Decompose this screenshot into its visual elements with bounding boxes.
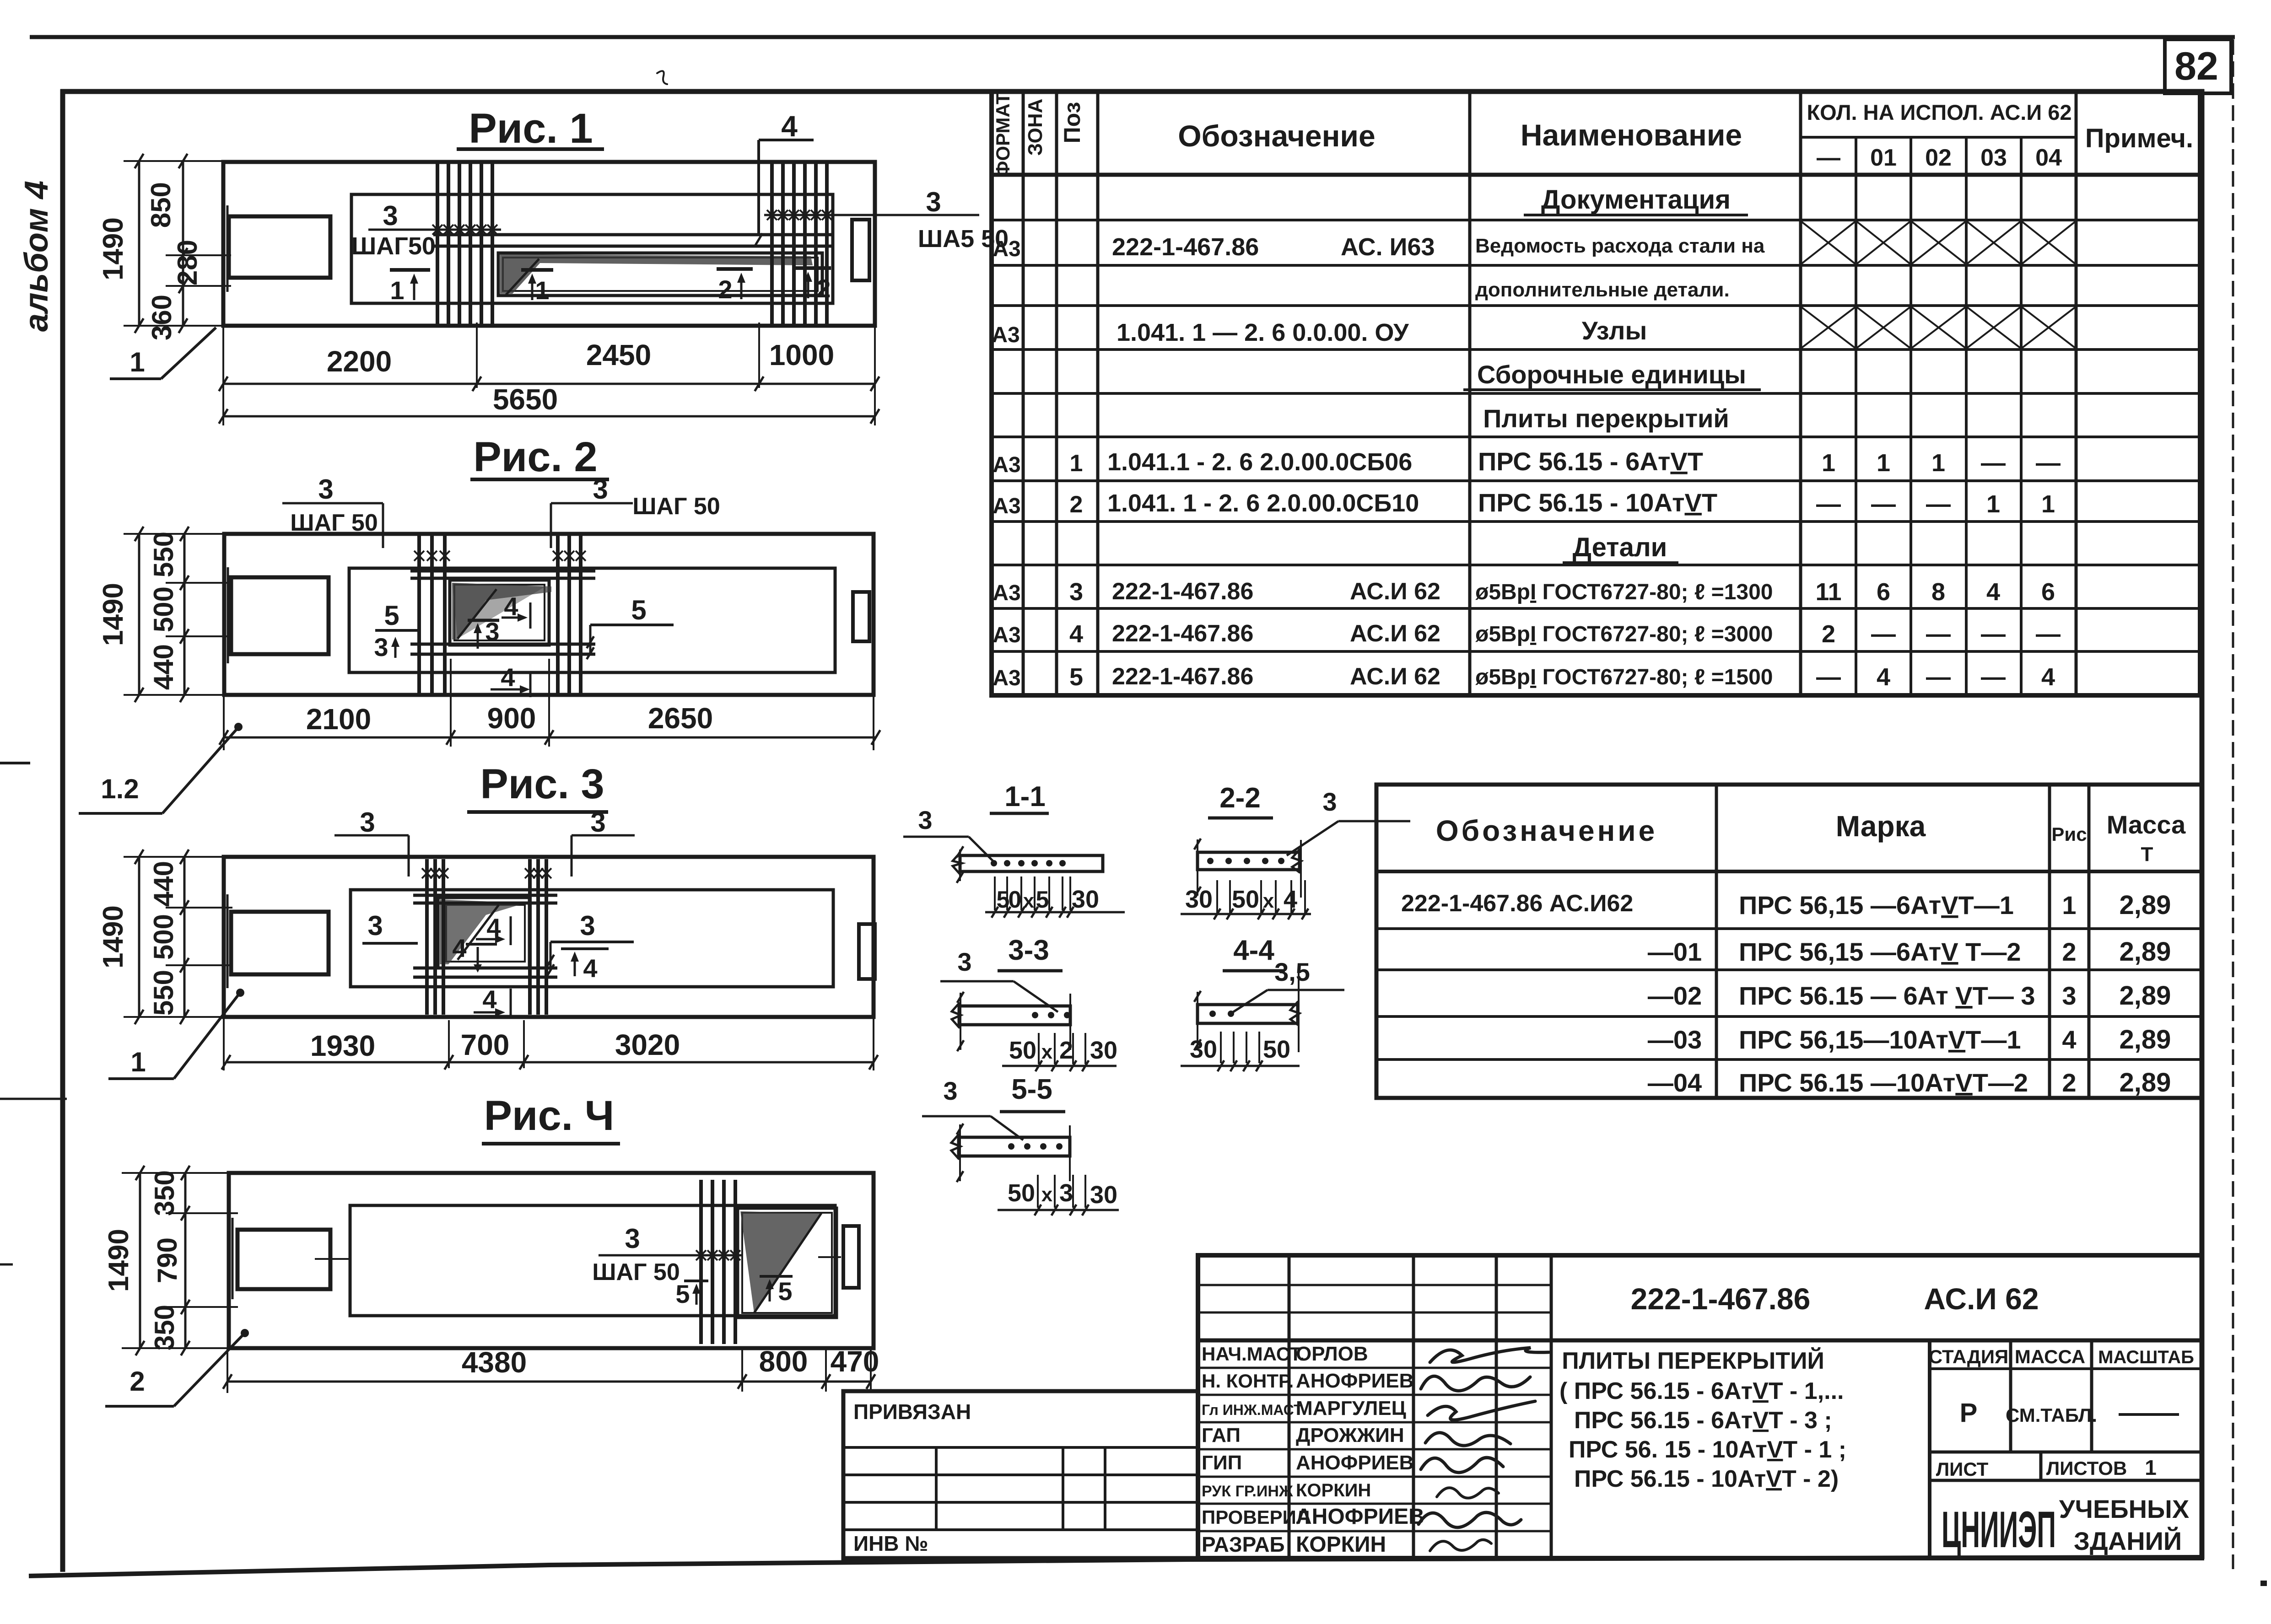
svg-text:ПРС 56.15 - 10АтVТ: ПРС 56.15 - 10АтVТ — [1478, 488, 1717, 517]
svg-text:ФОРМАТ: ФОРМАТ — [992, 92, 1014, 177]
svg-text:222-1-467.86: 222-1-467.86 — [1112, 620, 1253, 647]
svg-text:ДРОЖЖИН: ДРОЖЖИН — [1296, 1424, 1404, 1447]
svg-text:82: 82 — [2174, 44, 2218, 88]
svg-text:350: 350 — [149, 1170, 180, 1216]
svg-text:Документация: Документация — [1541, 185, 1731, 215]
svg-text:ПРС 56.15 - 6АтVТ - 3 ;: ПРС 56.15 - 6АтVТ - 3 ; — [1574, 1407, 1832, 1434]
svg-text:1.041. 1 — 2. 6 0.0.00. ОУ: 1.041. 1 — 2. 6 0.0.00. ОУ — [1117, 319, 1409, 346]
svg-text:ø5ВрI ГОСТ6727-80; ℓ =1500: ø5ВрI ГОСТ6727-80; ℓ =1500 — [1475, 665, 1773, 689]
svg-text:ПРИВЯЗАН: ПРИВЯЗАН — [853, 1400, 971, 1424]
svg-text:Обозначение: Обозначение — [1178, 119, 1375, 153]
svg-text:ГИП: ГИП — [1202, 1452, 1242, 1474]
svg-text:Сборочные единицы: Сборочные единицы — [1477, 360, 1746, 389]
svg-text:РУК ГР.ИНЖ: РУК ГР.ИНЖ — [1202, 1483, 1293, 1500]
svg-text:1.041. 1 - 2. 6 2.0.00.0СБ10: 1.041. 1 - 2. 6 2.0.00.0СБ10 — [1107, 489, 1419, 517]
svg-text:А3: А3 — [993, 666, 1020, 690]
svg-text:1490: 1490 — [103, 1229, 135, 1292]
svg-text:4: 4 — [482, 985, 496, 1014]
svg-text:550: 550 — [148, 970, 179, 1016]
svg-text:СТАДИЯ: СТАДИЯ — [1929, 1346, 2008, 1367]
svg-text:4: 4 — [501, 663, 515, 692]
svg-text:Гл ИНЖ.МАСТ: Гл ИНЖ.МАСТ — [1202, 1402, 1303, 1418]
svg-text:ПРС 56.15 - 6АтVТ: ПРС 56.15 - 6АтVТ — [1478, 447, 1703, 476]
svg-text:дополнительные детали.: дополнительные детали. — [1475, 279, 1730, 301]
svg-text:1490: 1490 — [97, 583, 129, 646]
svg-text:280: 280 — [172, 240, 203, 285]
svg-text:1000: 1000 — [769, 339, 834, 371]
svg-text:КОРКИН: КОРКИН — [1296, 1480, 1371, 1500]
svg-text:—01: —01 — [1648, 937, 1702, 966]
svg-text:АНОФРИЕВ: АНОФРИЕВ — [1296, 1505, 1424, 1529]
svg-text:ПРС 56.15 —10АтVТ—2: ПРС 56.15 —10АтVТ—2 — [1739, 1068, 2028, 1097]
svg-text:2: 2 — [2062, 937, 2076, 966]
svg-text:4: 4 — [1986, 578, 2000, 606]
svg-text:3: 3 — [360, 807, 375, 838]
svg-text:ЗОНА: ЗОНА — [1024, 99, 1046, 156]
svg-text:50: 50 — [1009, 1037, 1036, 1064]
svg-text:Поз: Поз — [1059, 102, 1085, 144]
svg-text:—: — — [1871, 490, 1896, 518]
svg-text:30: 30 — [1090, 1037, 1117, 1064]
svg-text:3: 3 — [918, 806, 932, 834]
svg-text:ОРЛОВ: ОРЛОВ — [1296, 1343, 1368, 1365]
svg-text:4: 4 — [2041, 663, 2055, 691]
svg-text:30: 30 — [1090, 1181, 1117, 1209]
svg-text:ПРС 56,15—10АтVТ—1: ПРС 56,15—10АтVТ—1 — [1739, 1025, 2021, 1054]
svg-text:222-1-467.86: 222-1-467.86 — [1631, 1282, 1811, 1316]
svg-text:А3: А3 — [993, 494, 1020, 518]
svg-text:АС.И 62: АС.И 62 — [1350, 663, 1440, 690]
svg-text:ПРС 56.15 - 10АтVТ - 2): ПРС 56.15 - 10АтVТ - 2) — [1574, 1466, 1839, 1492]
svg-text:222-1-467.86 АС.И62: 222-1-467.86 АС.И62 — [1401, 890, 1633, 917]
svg-text:ПРС 56,15 —6АтVТ—1: ПРС 56,15 —6АтVТ—1 — [1739, 891, 2014, 920]
svg-text:Детали: Детали — [1573, 532, 1667, 562]
svg-text:2,89: 2,89 — [2120, 937, 2171, 967]
svg-text:ø5ВрI ГОСТ6727-80; ℓ =3000: ø5ВрI ГОСТ6727-80; ℓ =3000 — [1475, 622, 1773, 646]
svg-text:3: 3 — [383, 200, 398, 231]
svg-text:А3: А3 — [993, 581, 1020, 605]
svg-text:4: 4 — [781, 110, 798, 143]
svg-text:50: 50 — [1232, 886, 1259, 913]
svg-text:6: 6 — [1877, 578, 1890, 606]
svg-text:1.2: 1.2 — [101, 774, 139, 804]
svg-text:ЦНИИЭП: ЦНИИЭП — [1942, 1501, 2056, 1558]
svg-text:1: 1 — [130, 1047, 146, 1077]
svg-text:800: 800 — [759, 1345, 808, 1378]
svg-text:500: 500 — [148, 586, 179, 632]
svg-text:4-4: 4-4 — [1233, 935, 1274, 966]
svg-text:—: — — [1817, 145, 1840, 171]
svg-text:50: 50 — [1008, 1179, 1035, 1207]
svg-text:3: 3 — [1069, 578, 1083, 606]
svg-text:3: 3 — [957, 947, 971, 976]
svg-text:АНОФРИЕВ: АНОФРИЕВ — [1296, 1452, 1413, 1474]
svg-text:1: 1 — [1986, 490, 2000, 518]
svg-text:Обозначение: Обозначение — [1436, 814, 1657, 847]
svg-text:Т: Т — [2141, 843, 2153, 866]
svg-text:222-1-467.86: 222-1-467.86 — [1112, 578, 1253, 605]
svg-text:Рис. 1: Рис. 1 — [469, 105, 593, 152]
svg-text:2: 2 — [718, 275, 732, 304]
svg-text:ПЛИТЫ ПЕРЕКРЫТИЙ: ПЛИТЫ ПЕРЕКРЫТИЙ — [1562, 1347, 1824, 1374]
svg-text:—: — — [1816, 663, 1841, 691]
svg-text:1490: 1490 — [97, 217, 129, 280]
svg-text:ШАГ50: ШАГ50 — [351, 232, 436, 260]
svg-text:2: 2 — [1070, 491, 1083, 518]
svg-text:3: 3 — [374, 633, 388, 661]
svg-text:5: 5 — [631, 595, 646, 625]
svg-text:2,89: 2,89 — [2120, 890, 2171, 920]
svg-text:30: 30 — [1072, 886, 1099, 913]
svg-text:А3: А3 — [993, 453, 1020, 477]
svg-text:АС.И 62: АС.И 62 — [1924, 1282, 2039, 1316]
svg-text:850: 850 — [146, 182, 176, 228]
svg-text:1: 1 — [2062, 891, 2076, 920]
svg-text:360: 360 — [146, 295, 177, 340]
svg-text:ПРС 56. 15 - 10АтVТ - 1 ;: ПРС 56. 15 - 10АтVТ - 1 ; — [1569, 1436, 1846, 1463]
svg-text:1: 1 — [2041, 490, 2055, 518]
svg-text:1: 1 — [1070, 450, 1083, 477]
svg-text:5-5: 5-5 — [1011, 1074, 1052, 1105]
svg-text:1490: 1490 — [97, 905, 129, 968]
svg-text:ГАП: ГАП — [1202, 1424, 1241, 1447]
svg-text:700: 700 — [461, 1028, 510, 1061]
svg-text:АС.И 62: АС.И 62 — [1350, 620, 1440, 647]
svg-text:—: — — [1871, 620, 1896, 648]
svg-text:МАСШТАБ: МАСШТАБ — [2098, 1347, 2194, 1367]
svg-text:3: 3 — [1059, 1179, 1073, 1207]
svg-text:x: x — [1041, 1183, 1053, 1206]
svg-text:1: 1 — [1931, 449, 1945, 477]
svg-text:01: 01 — [1870, 145, 1897, 171]
svg-text:3: 3 — [625, 1223, 640, 1254]
svg-text:2: 2 — [1059, 1037, 1073, 1064]
svg-text:2,89: 2,89 — [2120, 1068, 2171, 1097]
svg-text:900: 900 — [487, 702, 536, 735]
svg-text:СМ.ТАБЛ.: СМ.ТАБЛ. — [2006, 1404, 2097, 1426]
svg-text:ЛИСТ: ЛИСТ — [1936, 1458, 1989, 1480]
svg-text:—: — — [1981, 449, 2006, 477]
svg-text:КОРКИН: КОРКИН — [1296, 1533, 1386, 1557]
svg-text:3-3: 3-3 — [1008, 935, 1049, 966]
svg-text:3: 3 — [485, 617, 499, 646]
svg-text:5: 5 — [675, 1280, 690, 1308]
svg-text:А3: А3 — [993, 623, 1020, 647]
svg-text:ШАГ 50: ШАГ 50 — [592, 1259, 680, 1285]
svg-text:Н. КОНТР.: Н. КОНТР. — [1202, 1370, 1294, 1392]
svg-text:4: 4 — [2062, 1025, 2076, 1054]
svg-text:Р: Р — [1960, 1398, 1978, 1428]
svg-text:03: 03 — [1980, 145, 2007, 171]
svg-text:—: — — [1926, 490, 1951, 518]
svg-text:1: 1 — [1877, 449, 1890, 477]
svg-text:—: — — [1981, 663, 2006, 691]
svg-text:Рис. 3: Рис. 3 — [480, 761, 604, 807]
svg-text:2: 2 — [816, 274, 831, 303]
svg-text:ИНВ №: ИНВ № — [853, 1532, 928, 1555]
svg-text:ЛИСТОВ: ЛИСТОВ — [2046, 1457, 2127, 1479]
svg-text:3: 3 — [318, 474, 333, 505]
svg-text:ШАГ 50: ШАГ 50 — [290, 510, 378, 536]
svg-text:50: 50 — [1263, 1036, 1290, 1063]
svg-text:—: — — [1926, 620, 1951, 648]
svg-text:02: 02 — [1925, 145, 1952, 171]
svg-text:Марка: Марка — [1836, 810, 1926, 843]
svg-text:1: 1 — [129, 347, 145, 377]
svg-text:МАССА: МАССА — [2015, 1346, 2085, 1367]
svg-text:—04: —04 — [1648, 1068, 1702, 1097]
svg-text:4: 4 — [1877, 663, 1890, 691]
svg-text:x: x — [1023, 890, 1035, 912]
svg-text:x: x — [1041, 1041, 1053, 1063]
svg-text:04: 04 — [2035, 145, 2062, 171]
svg-text:30: 30 — [1190, 1036, 1217, 1063]
svg-text:Рис: Рис — [2051, 823, 2087, 845]
svg-text:ø5ВрI ГОСТ6727-80; ℓ =1300: ø5ВрI ГОСТ6727-80; ℓ =1300 — [1475, 580, 1773, 604]
svg-text:3: 3 — [1322, 787, 1337, 816]
svg-text:1-1: 1-1 — [1004, 781, 1046, 812]
svg-text:( ПРС 56.15 - 6АтVТ - 1,...: ( ПРС 56.15 - 6АтVТ - 1,... — [1559, 1378, 1844, 1404]
svg-text:ПРС 56,15 —6АтV Т—2: ПРС 56,15 —6АтV Т—2 — [1739, 937, 2021, 966]
svg-text:4: 4 — [1069, 620, 1083, 648]
svg-text:3: 3 — [926, 187, 941, 217]
svg-text:Масса: Масса — [2107, 810, 2186, 839]
svg-text:1.041.1 - 2. 6 2.0.00.0СБ06: 1.041.1 - 2. 6 2.0.00.0СБ06 — [1107, 448, 1412, 476]
svg-text:АНОФРИЕВ: АНОФРИЕВ — [1296, 1370, 1413, 1392]
svg-text:350: 350 — [149, 1305, 180, 1350]
svg-text:222-1-467.86: 222-1-467.86 — [1112, 233, 1259, 261]
svg-text:—03: —03 — [1648, 1025, 1702, 1054]
svg-text:2200: 2200 — [327, 345, 392, 378]
svg-text:МАРГУЛЕЦ: МАРГУЛЕЦ — [1296, 1397, 1406, 1420]
svg-text:Ведомость расхода стали на: Ведомость расхода стали на — [1475, 235, 1765, 257]
svg-text:КОЛ. НА ИСПОЛ. АС.И 62: КОЛ. НА ИСПОЛ. АС.И 62 — [1807, 100, 2072, 124]
svg-text:11: 11 — [1815, 578, 1841, 606]
svg-text:3,5: 3,5 — [1274, 957, 1310, 986]
svg-text:3020: 3020 — [615, 1028, 680, 1061]
svg-text:УЧЕБНЫХ: УЧЕБНЫХ — [2059, 1495, 2189, 1523]
svg-text:альбом 4: альбом 4 — [18, 181, 55, 332]
svg-text:ЗДАНИЙ: ЗДАНИЙ — [2074, 1527, 2182, 1555]
svg-text:2: 2 — [129, 1366, 145, 1397]
svg-text:3: 3 — [943, 1076, 957, 1105]
svg-text:НАЧ.МАСТ.: НАЧ.МАСТ. — [1202, 1343, 1305, 1365]
svg-text:—: — — [1816, 490, 1841, 518]
svg-text:Рис. Ч: Рис. Ч — [484, 1092, 615, 1139]
svg-text:2: 2 — [1822, 620, 1835, 648]
svg-text:790: 790 — [152, 1237, 183, 1283]
svg-text:ПРОВЕРИЛ: ПРОВЕРИЛ — [1202, 1506, 1310, 1528]
svg-text:РАЗРАБ: РАЗРАБ — [1202, 1533, 1285, 1556]
svg-text:3: 3 — [580, 910, 595, 941]
svg-text:—02: —02 — [1648, 981, 1702, 1010]
svg-text:470: 470 — [831, 1345, 879, 1378]
svg-text:2650: 2650 — [648, 702, 713, 735]
svg-text:30: 30 — [1185, 886, 1213, 913]
svg-text:—: — — [1926, 663, 1951, 691]
svg-text:3: 3 — [590, 807, 605, 838]
svg-text:1930: 1930 — [310, 1029, 375, 1062]
svg-text:2,89: 2,89 — [2120, 1025, 2171, 1054]
svg-text:ШАГ 50: ШАГ 50 — [632, 493, 720, 520]
svg-text:1: 1 — [2145, 1456, 2157, 1479]
svg-text:—: — — [1981, 620, 2006, 648]
svg-text:222-1-467.86: 222-1-467.86 — [1112, 663, 1253, 690]
svg-text:—: — — [2036, 620, 2061, 648]
svg-text:5: 5 — [1069, 663, 1083, 691]
svg-text:Примеч.: Примеч. — [2085, 124, 2193, 153]
svg-text:3: 3 — [367, 910, 383, 941]
svg-text:5: 5 — [778, 1277, 792, 1306]
svg-text:3: 3 — [593, 474, 608, 505]
svg-text:550: 550 — [148, 532, 179, 577]
svg-text:5: 5 — [384, 600, 399, 631]
svg-text:440: 440 — [148, 861, 179, 907]
svg-text:2: 2 — [2062, 1068, 2076, 1097]
svg-text:2100: 2100 — [306, 703, 371, 736]
svg-text:4380: 4380 — [462, 1346, 527, 1379]
svg-text:8: 8 — [1931, 578, 1945, 606]
svg-text:4: 4 — [452, 934, 466, 963]
svg-text:2450: 2450 — [586, 339, 651, 371]
svg-text:2,89: 2,89 — [2120, 981, 2171, 1011]
svg-text:АС. И63: АС. И63 — [1341, 233, 1435, 261]
svg-text:2-2: 2-2 — [1219, 782, 1261, 814]
svg-text:440: 440 — [148, 644, 179, 690]
svg-text:500: 500 — [148, 914, 179, 960]
svg-text:1: 1 — [390, 276, 404, 305]
svg-text:Рис. 2: Рис. 2 — [473, 434, 597, 480]
svg-text:Узлы: Узлы — [1582, 316, 1647, 345]
svg-text:4: 4 — [583, 954, 597, 983]
svg-text:ПРС 56.15 — 6Ат VТ— 3: ПРС 56.15 — 6Ат VТ— 3 — [1739, 981, 2035, 1010]
svg-text:6: 6 — [2041, 578, 2055, 606]
svg-text:1: 1 — [1822, 449, 1835, 477]
svg-text:Плиты перекрытий: Плиты перекрытий — [1483, 404, 1729, 433]
svg-text:1: 1 — [535, 276, 549, 305]
svg-text:А3: А3 — [992, 323, 1020, 347]
svg-text:3: 3 — [2062, 981, 2076, 1010]
svg-text:А3: А3 — [993, 237, 1020, 261]
svg-text:—: — — [2036, 449, 2061, 477]
svg-text:АС.И 62: АС.И 62 — [1350, 578, 1440, 605]
svg-text:Наименование: Наименование — [1521, 118, 1742, 152]
svg-text:5650: 5650 — [493, 383, 558, 416]
